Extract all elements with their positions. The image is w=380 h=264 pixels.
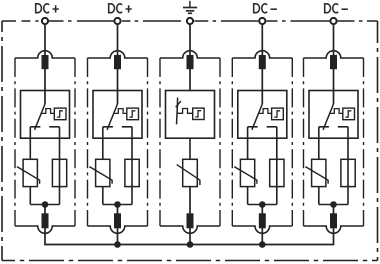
wire: branch joining bar	[30, 204, 59, 206]
junction node n4	[259, 201, 266, 208]
bus junction node (module 4)	[259, 241, 266, 248]
junction node n5	[330, 201, 337, 208]
thermal disconnect element F21 (black block, top)	[114, 55, 121, 69]
wire: thermal disconnect to switching device box (PE)	[189, 69, 191, 91]
wire: bottom disconnect to bus	[261, 228, 263, 245]
fuse F4 body	[270, 159, 284, 186]
junction node n1	[42, 201, 49, 208]
wire: bottom disconnect to bus	[44, 228, 46, 245]
thermal disconnect element F52 (black block, bottom)	[330, 213, 337, 228]
step-function symbol inside trip indicator	[274, 111, 280, 117]
module frame bottom with terminal bulge	[15, 226, 75, 233]
module frame bottom with terminal bulge	[232, 226, 292, 233]
module frame bottom with terminal bulge (PE module)	[160, 226, 220, 233]
module frame right side (dash-dot)	[219, 58, 221, 226]
vertical switch blade (PE path)	[177, 98, 178, 125]
step-function symbol inside trip indicator	[345, 111, 351, 117]
label DC+ (terminal X1)	[36, 4, 59, 13]
thermal disconnect element F12 (black block, bottom)	[42, 213, 49, 228]
enclosure outline right (dash-dot)	[377, 21, 379, 261]
mechanical linkage to trip indicator (PE)	[177, 109, 193, 114]
SCI switching device box S1	[21, 91, 70, 139]
left fixed contact bar	[319, 126, 329, 128]
wire: thermal disconnect to switch box	[261, 69, 263, 104]
terminal circle X2 (DC+)	[114, 18, 120, 24]
right fixed contact bar	[267, 126, 277, 128]
right fixed contact bar	[122, 126, 132, 128]
wire: terminal to thermal disconnect (X2)	[117, 25, 119, 56]
wire: bottom disconnect to bus (PE)	[189, 228, 191, 245]
wire: branch joining bar	[319, 204, 348, 206]
module frame right side (dash-dot)	[147, 58, 149, 226]
mechanical linkage to trip indicator	[259, 109, 272, 114]
wire: right branch through fuse	[59, 127, 61, 205]
step-function symbol inside trip indicator (PE)	[195, 111, 201, 117]
fuse F2 body	[125, 159, 139, 186]
switch blade of S1	[35, 104, 45, 130]
trip indicator box	[272, 108, 284, 120]
wire: right branch through fuse	[131, 127, 133, 205]
thermal disconnect element F11 (black block, top)	[42, 55, 49, 69]
wire: junction to bottom disconnect	[44, 205, 46, 214]
wire: bottom disconnect to bus	[117, 228, 119, 245]
thermal disconnect element (black block, top, PE path)	[187, 55, 194, 69]
varistor RV1 diagonal stroke	[17, 167, 40, 184]
wire: junction to bottom disconnect	[333, 205, 335, 214]
varistor RV1 body	[23, 159, 37, 186]
wire: branch joining bar	[103, 204, 132, 206]
wire: terminal to thermal disconnect (X5)	[333, 25, 335, 56]
trip indicator box	[127, 108, 139, 120]
wire: left branch down to varistor	[318, 127, 320, 160]
terminal circle X3 (PE)	[187, 18, 193, 24]
bottom PE bus wire	[45, 244, 334, 246]
trip indicator box	[54, 108, 66, 120]
module frame left side (dash-dot)	[87, 58, 89, 226]
terminal circle X5 (DC-)	[330, 18, 336, 24]
varistor RV5 diagonal stroke	[305, 167, 328, 184]
label DC- (terminal X4)	[254, 4, 277, 13]
left fixed contact bar	[103, 126, 113, 128]
wire: left branch down to varistor	[29, 127, 31, 160]
thermal disconnect element F51 (black block, top)	[330, 55, 337, 69]
switch blade of S4	[252, 104, 262, 130]
module frame top with terminal bulge	[88, 51, 148, 58]
wire: thermal disconnect to switch box	[333, 69, 335, 104]
module frame left side (dash-dot)	[303, 58, 305, 226]
wire: right branch through fuse	[347, 127, 349, 205]
right fixed contact bar	[338, 126, 348, 128]
fuse F5 body	[341, 159, 355, 186]
enclosure outline bottom (dash-dot)	[2, 260, 378, 262]
trip indicator box (PE)	[193, 108, 204, 119]
bus junction node (module 3)	[187, 241, 194, 248]
module frame right side (dash-dot)	[74, 58, 76, 226]
module frame top with terminal bulge	[15, 51, 75, 58]
wire: junction to bottom disconnect	[261, 205, 263, 214]
module frame left side (dash-dot)	[159, 58, 161, 226]
enclosure outline left (dash-dot)	[1, 21, 3, 261]
mechanical linkage to trip indicator	[330, 109, 343, 114]
junction node n2	[114, 201, 121, 208]
fuse F1 body	[52, 159, 66, 186]
terminal circle X1 (DC+)	[42, 18, 48, 24]
wire: left branch down to varistor	[247, 127, 249, 160]
step-function symbol inside trip indicator	[57, 111, 63, 117]
switch blade of S2	[107, 104, 117, 130]
thermal disconnect element F42 (black block, bottom)	[259, 213, 266, 228]
module frame right side (dash-dot)	[363, 58, 365, 226]
trip indicator box	[343, 108, 355, 120]
SCI switching device box S5	[309, 91, 358, 139]
left fixed contact bar	[248, 126, 258, 128]
SCI switching device box S2	[93, 91, 142, 139]
wire: varistor bottom to junction	[29, 187, 31, 205]
wire: varistor to bottom disconnect (PE)	[189, 187, 191, 214]
varistor body (PE path)	[183, 159, 198, 186]
terminal circle X4 (DC-)	[259, 18, 265, 24]
thermal disconnect element F22 (black block, bottom)	[114, 213, 121, 228]
mechanical linkage to trip indicator	[114, 109, 127, 114]
wire: thermal disconnect to switch box	[44, 69, 46, 104]
wire: PE terminal to thermal disconnect	[189, 25, 191, 56]
enclosure outline top (dash-dot, drawn as explicit dashes)	[2, 20, 378, 22]
wire: switch box to varistor (PE)	[189, 138, 191, 159]
switch blade of S5	[323, 104, 333, 130]
module frame top with terminal bulge (PE module)	[160, 51, 220, 58]
wire: junction to bottom disconnect	[117, 205, 119, 214]
varistor RV4 diagonal stroke	[234, 167, 257, 184]
module frame left side (dash-dot)	[14, 58, 16, 226]
varistor RV2 diagonal stroke	[89, 167, 112, 184]
varistor RV5 body	[312, 159, 326, 186]
wire: varistor bottom to junction	[247, 187, 249, 205]
mechanical linkage to trip indicator	[42, 109, 55, 114]
wire: varistor bottom to junction	[318, 187, 320, 205]
wire: terminal to thermal disconnect (X1)	[44, 25, 46, 56]
varistor diagonal stroke (PE path)	[177, 165, 200, 185]
bus junction node (module 2)	[114, 241, 121, 248]
wire: branch joining bar	[248, 204, 277, 206]
thermal disconnect element (black block, bottom, PE)	[187, 213, 194, 228]
thermal disconnect element F41 (black block, top)	[259, 55, 266, 69]
module frame top with terminal bulge	[232, 51, 292, 58]
right fixed contact bar	[49, 126, 59, 128]
wire: varistor bottom to junction	[102, 187, 104, 205]
wire: bottom disconnect to bus	[333, 228, 335, 245]
wire: terminal to thermal disconnect (X4)	[261, 25, 263, 56]
wire: thermal disconnect to switch box	[117, 69, 119, 104]
SCI switching device box S4	[238, 91, 287, 139]
step-function symbol inside trip indicator	[129, 111, 135, 117]
label DC- (terminal X5)	[325, 4, 348, 13]
wire: right branch through fuse	[276, 127, 278, 205]
module frame right side (dash-dot)	[291, 58, 293, 226]
module frame left side (dash-dot)	[231, 58, 233, 226]
left fixed contact bar	[30, 126, 40, 128]
varistor RV2 body	[96, 159, 110, 186]
wire: left branch down to varistor	[102, 127, 104, 160]
varistor RV4 body	[240, 159, 254, 186]
label DC+ (terminal X2)	[109, 4, 132, 13]
switch tick mark	[176, 101, 181, 107]
module frame bottom with terminal bulge	[304, 226, 364, 233]
module frame bottom with terminal bulge	[88, 226, 148, 233]
module frame top with terminal bulge	[304, 51, 364, 58]
switching device box (PE path)	[166, 91, 215, 139]
earth symbol (terminal X3)	[183, 1, 197, 14]
